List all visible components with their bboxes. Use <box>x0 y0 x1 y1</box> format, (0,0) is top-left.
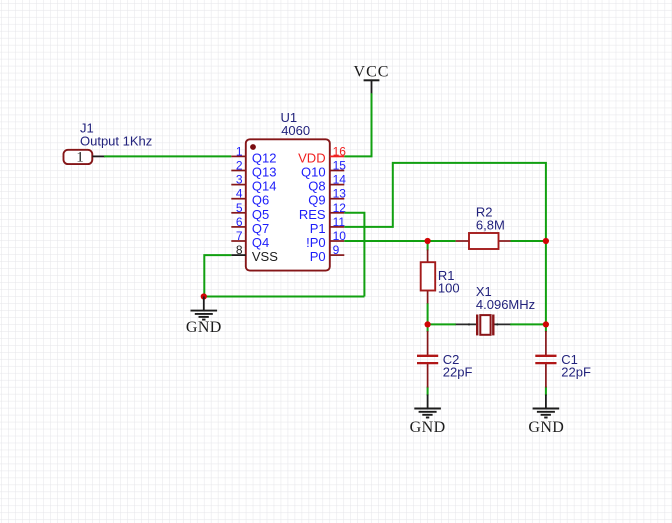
svg-text:4060: 4060 <box>281 123 310 138</box>
svg-text:2: 2 <box>236 159 243 173</box>
capacitor C2 <box>417 331 438 388</box>
svg-text:1: 1 <box>236 144 243 158</box>
capacitor C1 <box>535 331 556 388</box>
IC U1 4060 body <box>246 139 330 270</box>
svg-text:Output 1Khz: Output 1Khz <box>80 133 152 148</box>
pin 11 P1 <box>310 215 346 236</box>
pin 15 Q10 <box>301 159 346 180</box>
resistor R2 <box>456 233 511 249</box>
wire C2 bottom <box>427 387 429 396</box>
svg-text:Q4: Q4 <box>252 235 269 250</box>
svg-text:6: 6 <box>236 215 243 229</box>
power flag VCC <box>354 64 390 95</box>
pin 12 RES <box>299 201 346 222</box>
resistor R1 <box>421 250 436 304</box>
svg-text:GND: GND <box>410 419 446 436</box>
pin 1 Q12 <box>231 144 276 165</box>
wire J1 to U1 pin1 <box>104 155 231 157</box>
svg-text:4: 4 <box>236 187 243 201</box>
ground rail wire <box>204 296 365 298</box>
ground symbol left (VSS) <box>186 297 222 337</box>
svg-text:Q7: Q7 <box>252 221 269 236</box>
pin 13 Q9 <box>308 187 346 208</box>
wire X1 node to crystal left <box>428 323 456 325</box>
svg-text:15: 15 <box>333 159 347 173</box>
pin 16 VDD <box>298 144 346 165</box>
svg-text:22pF: 22pF <box>443 365 473 380</box>
right rail wire down to C1 node <box>545 241 547 324</box>
svg-text:6,8M: 6,8M <box>476 218 505 233</box>
svg-text:5: 5 <box>236 201 243 215</box>
pin 5 Q5 <box>231 201 269 222</box>
svg-text:4.096MHz: 4.096MHz <box>476 297 535 312</box>
wire R1 top <box>427 241 429 251</box>
svg-text:VDD: VDD <box>298 150 325 165</box>
wire VCC to pin16 <box>344 93 371 156</box>
svg-text:Q9: Q9 <box>308 193 325 208</box>
pin 14 Q8 <box>308 173 346 194</box>
svg-text:14: 14 <box>333 173 347 187</box>
ground symbol C2 <box>410 395 446 436</box>
pin 10 !P0 <box>306 229 346 250</box>
svg-text:Q12: Q12 <box>252 150 277 165</box>
svg-text:1: 1 <box>76 150 84 166</box>
junction node X1 right / C1 <box>543 321 549 327</box>
pin 2 Q13 <box>231 159 276 180</box>
svg-text:100: 100 <box>438 281 460 296</box>
svg-text:8: 8 <box>236 243 243 257</box>
ground symbol C1 <box>528 395 564 436</box>
junction node R1 top / !P0 <box>425 238 431 244</box>
pin 8 VSS <box>231 243 278 264</box>
svg-text:3: 3 <box>236 173 243 187</box>
svg-text:16: 16 <box>333 144 347 158</box>
junction node at VSS ground rail <box>201 293 207 299</box>
junction node X1 left / C2 <box>425 321 431 327</box>
svg-text:13: 13 <box>333 187 347 201</box>
wire R2 right to right rail <box>511 240 546 242</box>
svg-text:7: 7 <box>236 229 243 243</box>
wire pin8 VSS to ground rail <box>204 255 231 296</box>
svg-text:Q5: Q5 <box>252 207 269 222</box>
svg-text:GND: GND <box>528 419 564 436</box>
wire R1 bottom to X1 node <box>427 303 429 324</box>
wire C1 top <box>545 324 547 332</box>
wire R1 node to R2 left <box>428 240 456 242</box>
svg-text:Q8: Q8 <box>308 179 325 194</box>
svg-text:VSS: VSS <box>252 249 278 264</box>
svg-text:Q13: Q13 <box>252 165 277 180</box>
svg-text:P0: P0 <box>310 249 326 264</box>
pin 7 Q4 <box>231 229 269 250</box>
wire pin11 P1 up and over <box>344 163 546 241</box>
svg-text:Q6: Q6 <box>252 193 269 208</box>
svg-text:P1: P1 <box>310 221 326 236</box>
wire crystal right to C1 node <box>510 323 546 325</box>
pin 4 Q6 <box>231 187 269 208</box>
svg-text:Q14: Q14 <box>252 179 277 194</box>
svg-text:12: 12 <box>333 201 347 215</box>
svg-text:11: 11 <box>333 215 346 229</box>
wire pin12 RES down to ground rail <box>344 213 364 297</box>
wire pin10 !P0 to R1 node <box>344 240 427 242</box>
svg-text:Q10: Q10 <box>301 165 326 180</box>
pin1 marker dot <box>250 144 256 150</box>
junction node R2 right rail <box>543 238 549 244</box>
svg-text:10: 10 <box>333 229 347 243</box>
pin 6 Q7 <box>231 215 269 236</box>
svg-text:RES: RES <box>299 207 326 222</box>
pin 3 Q14 <box>231 173 276 194</box>
svg-text:GND: GND <box>186 319 222 336</box>
pin 9 P0 <box>310 243 345 264</box>
wire C2 top <box>427 324 429 332</box>
wire C1 bottom <box>545 387 547 396</box>
crystal X1 <box>456 315 511 336</box>
svg-text:VCC: VCC <box>354 64 390 81</box>
svg-text:22pF: 22pF <box>561 365 591 380</box>
connector J1 <box>64 150 106 166</box>
svg-text:!P0: !P0 <box>306 235 326 250</box>
svg-text:9: 9 <box>333 243 340 257</box>
